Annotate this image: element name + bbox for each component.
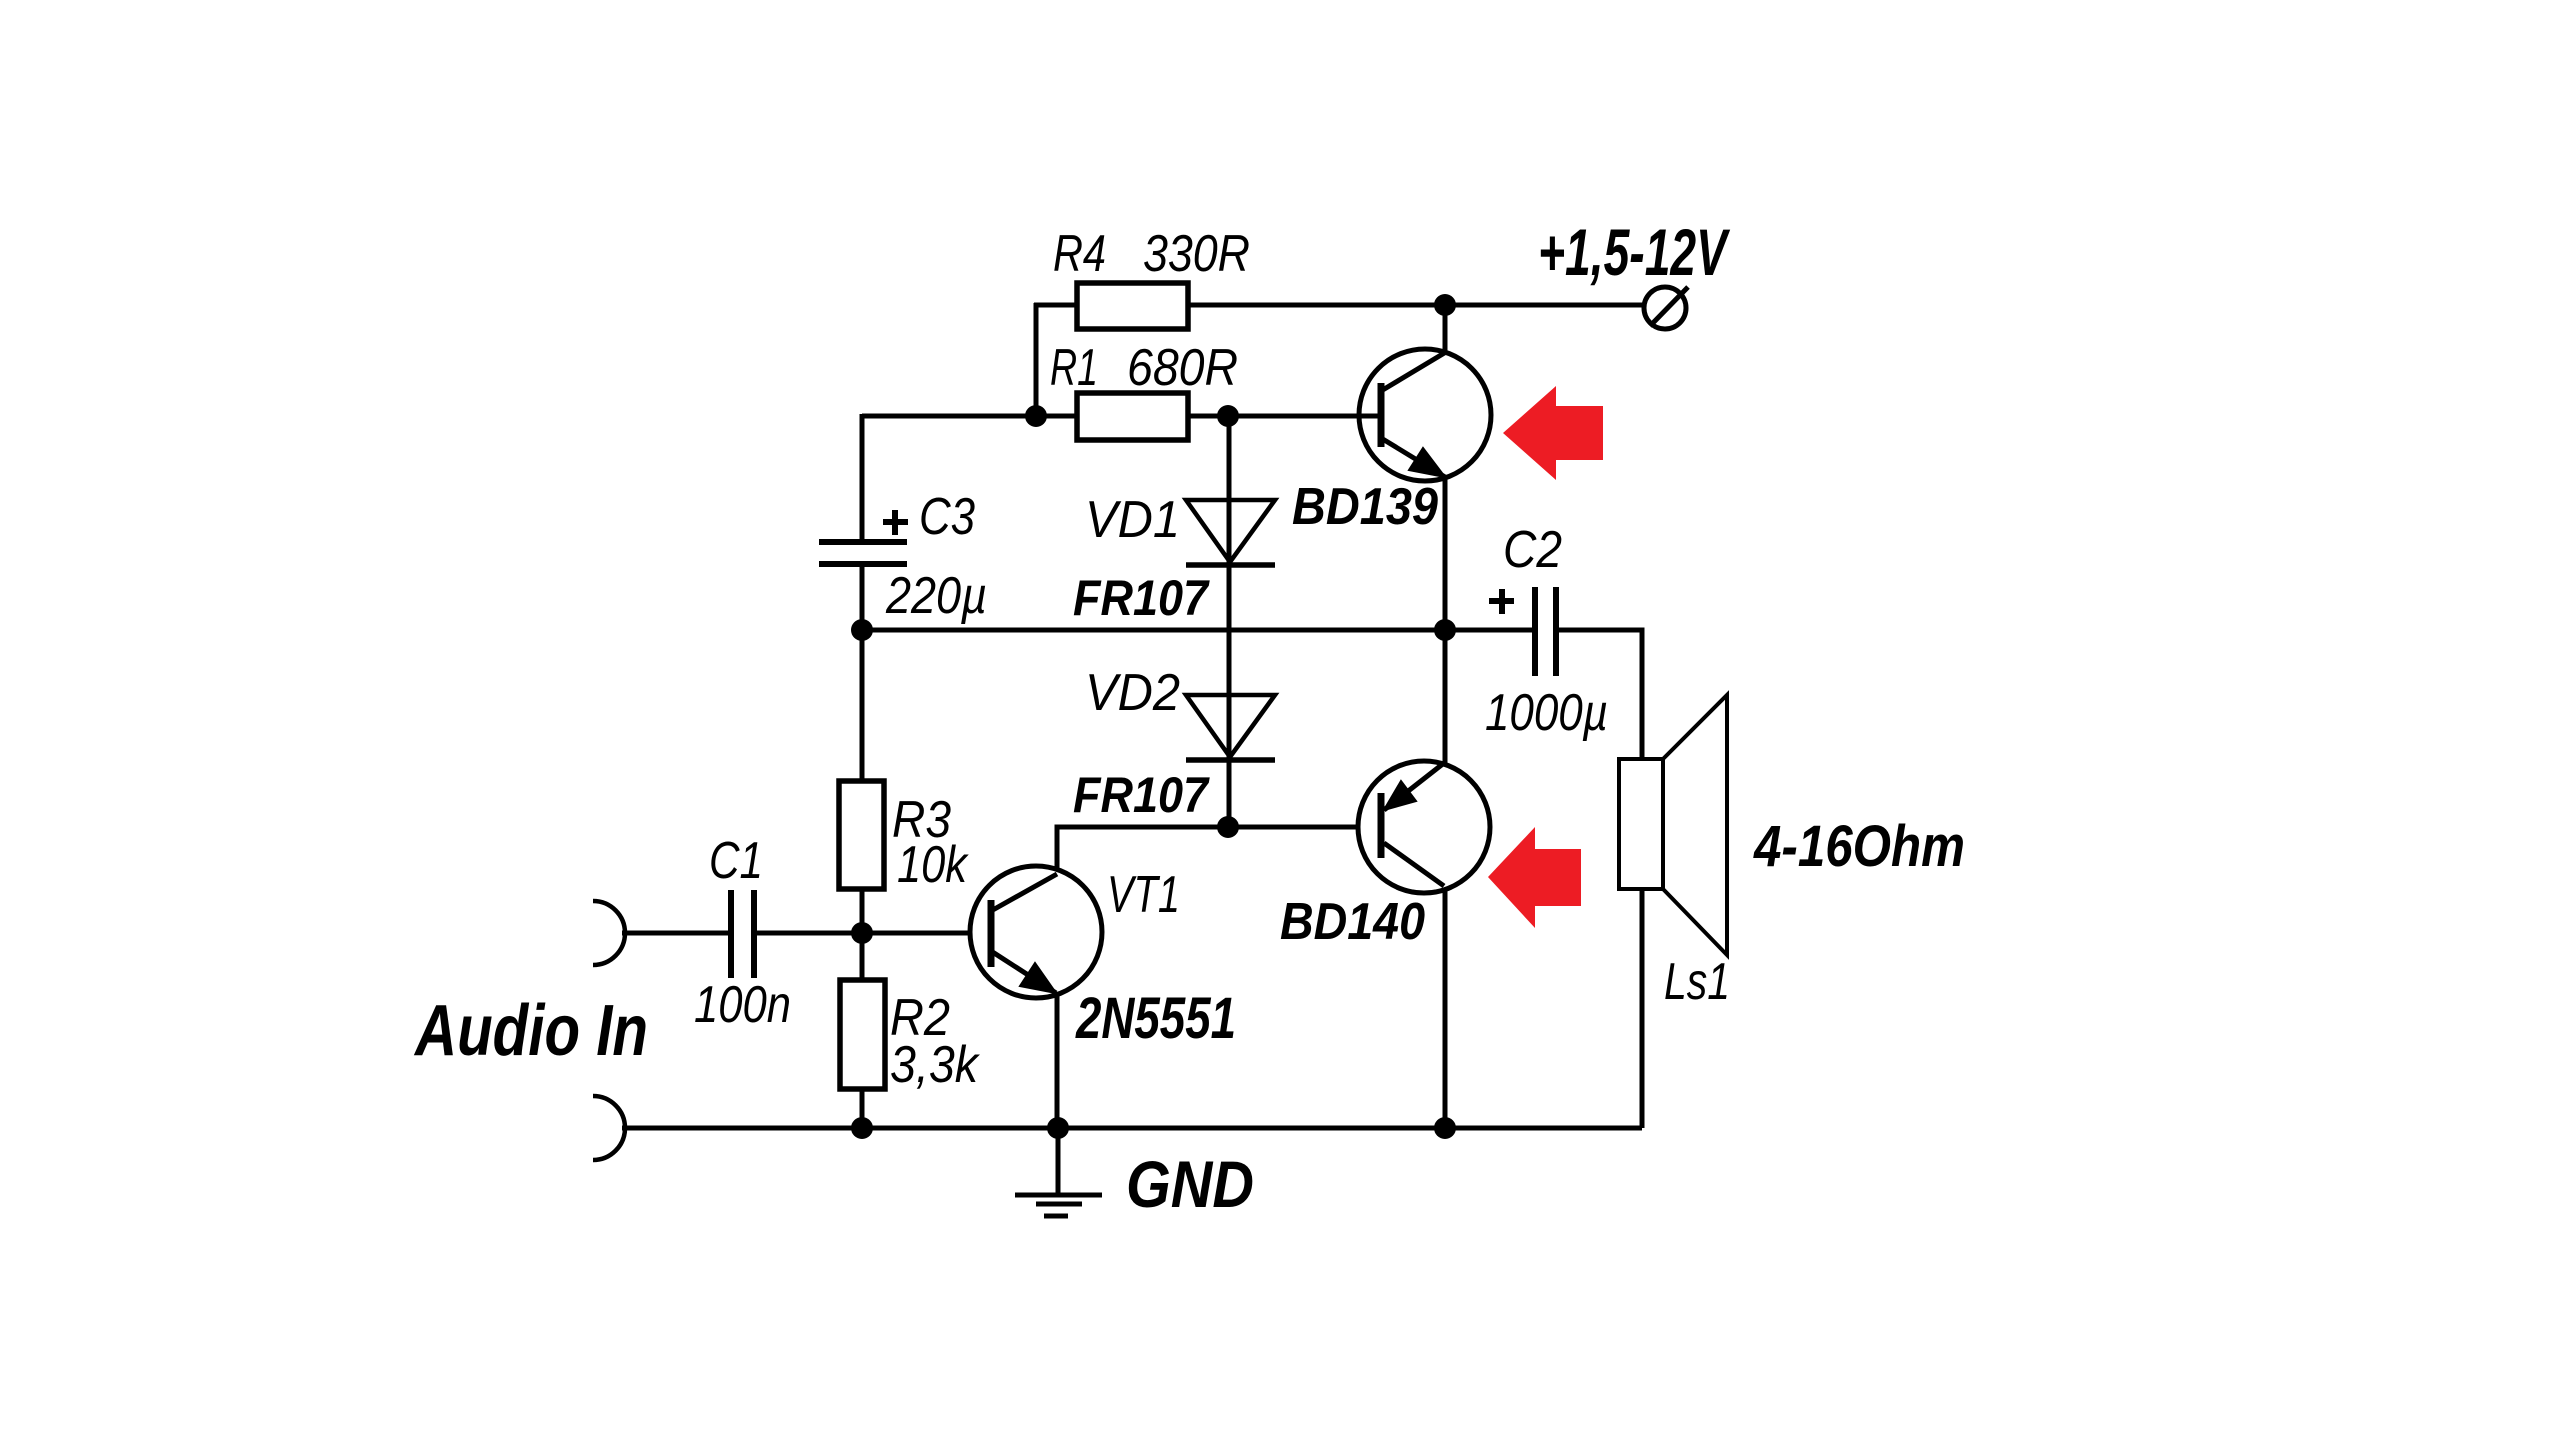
capacitor C3 plus sign	[883, 510, 908, 535]
svg-text:C3: C3	[919, 488, 975, 546]
wire VT1 collector riser	[1057, 827, 1381, 874]
svg-text:GND: GND	[1126, 1147, 1254, 1221]
wire speaker bottom lead	[1640, 889, 1645, 1128]
wire C3 top lead	[860, 414, 865, 540]
wire C3 node to R3	[860, 630, 865, 781]
wire R1 right to VD1 node	[1188, 414, 1381, 419]
svg-text:BD140: BD140	[1280, 893, 1425, 951]
svg-text:330R: 330R	[1143, 225, 1250, 283]
capacitor C2 plus sign	[1489, 589, 1514, 614]
input connector bottom	[593, 1096, 625, 1160]
wire node A horizontal (C3 top to R1 left)	[862, 414, 1077, 419]
svg-text:100n: 100n	[694, 976, 791, 1034]
svg-text:680R: 680R	[1127, 339, 1238, 397]
svg-text:FR107: FR107	[1073, 570, 1210, 626]
svg-text:FR107: FR107	[1073, 767, 1210, 823]
transistor U BD139	[1228, 349, 1491, 481]
wire output node to C2	[1445, 628, 1532, 633]
svg-text:1000µ: 1000µ	[1485, 684, 1608, 742]
svg-text:VT1: VT1	[1107, 866, 1180, 924]
svg-text:10k: 10k	[897, 836, 970, 894]
resistor R3	[839, 781, 884, 889]
svg-text:Audio In: Audio In	[413, 991, 648, 1071]
ground symbol	[1015, 1128, 1102, 1216]
svg-text:C1: C1	[709, 832, 763, 890]
svg-text:R1: R1	[1050, 339, 1098, 397]
wire R4-to-R1 vertical	[1034, 303, 1039, 416]
wire R2 bottom lead	[860, 1089, 865, 1128]
wire C2 to speaker	[1558, 630, 1642, 759]
resistor R4	[1077, 283, 1188, 329]
diode VD2	[1186, 695, 1275, 760]
resistor R2	[840, 980, 885, 1089]
transistor BD140	[1358, 761, 1490, 893]
capacitor C2 plates	[1535, 587, 1556, 676]
wire base node to R2	[860, 933, 865, 980]
transistor VT1	[970, 866, 1102, 998]
wire ground return line	[622, 1126, 1642, 1131]
wire diode chain lead	[1227, 416, 1232, 827]
wire R4 left lead	[1034, 303, 1077, 308]
wire output line C3 to emitters node	[862, 628, 1445, 633]
wire input to C1	[622, 931, 728, 936]
diode VD1	[1186, 500, 1275, 565]
wire R3 bottom to base node	[860, 889, 865, 933]
svg-text:BD139: BD139	[1292, 478, 1438, 536]
svg-text:+1,5-12V: +1,5-12V	[1538, 215, 1730, 289]
wire power rail	[1188, 303, 1643, 308]
speaker Ls1	[1619, 695, 1727, 955]
wire C1 to VT1 base	[756, 931, 991, 936]
input connector top	[593, 901, 625, 965]
capacitor C3 plates	[819, 542, 907, 564]
svg-text:Ls1: Ls1	[1664, 953, 1730, 1011]
svg-text:2N5551: 2N5551	[1075, 986, 1236, 1051]
wire output node to BD140 emitter	[1443, 630, 1448, 764]
annotation red arrow at BD139	[1503, 386, 1603, 480]
power terminal +1,5-12V	[1644, 287, 1688, 329]
junction node dots	[851, 294, 1456, 1139]
wire VT1 emitter drop	[1055, 991, 1060, 1128]
svg-text:VD1: VD1	[1085, 491, 1180, 549]
wire C3 bottom lead	[860, 566, 865, 630]
svg-text:3,3k: 3,3k	[890, 1036, 981, 1094]
resistor R1	[1077, 393, 1188, 440]
wire BD139 collector lead	[1443, 305, 1448, 353]
wire BD139 emitter to output node	[1443, 476, 1448, 630]
capacitor C1 plates	[731, 890, 754, 978]
svg-text:220µ: 220µ	[885, 567, 987, 625]
svg-text:4-16Ohm: 4-16Ohm	[1753, 814, 1965, 879]
wire BD140 collector drop	[1443, 885, 1448, 1128]
annotation red arrow at BD140	[1488, 827, 1581, 928]
svg-text:VD2: VD2	[1085, 664, 1180, 722]
svg-text:C2: C2	[1503, 521, 1562, 579]
svg-text:R4: R4	[1053, 225, 1106, 283]
